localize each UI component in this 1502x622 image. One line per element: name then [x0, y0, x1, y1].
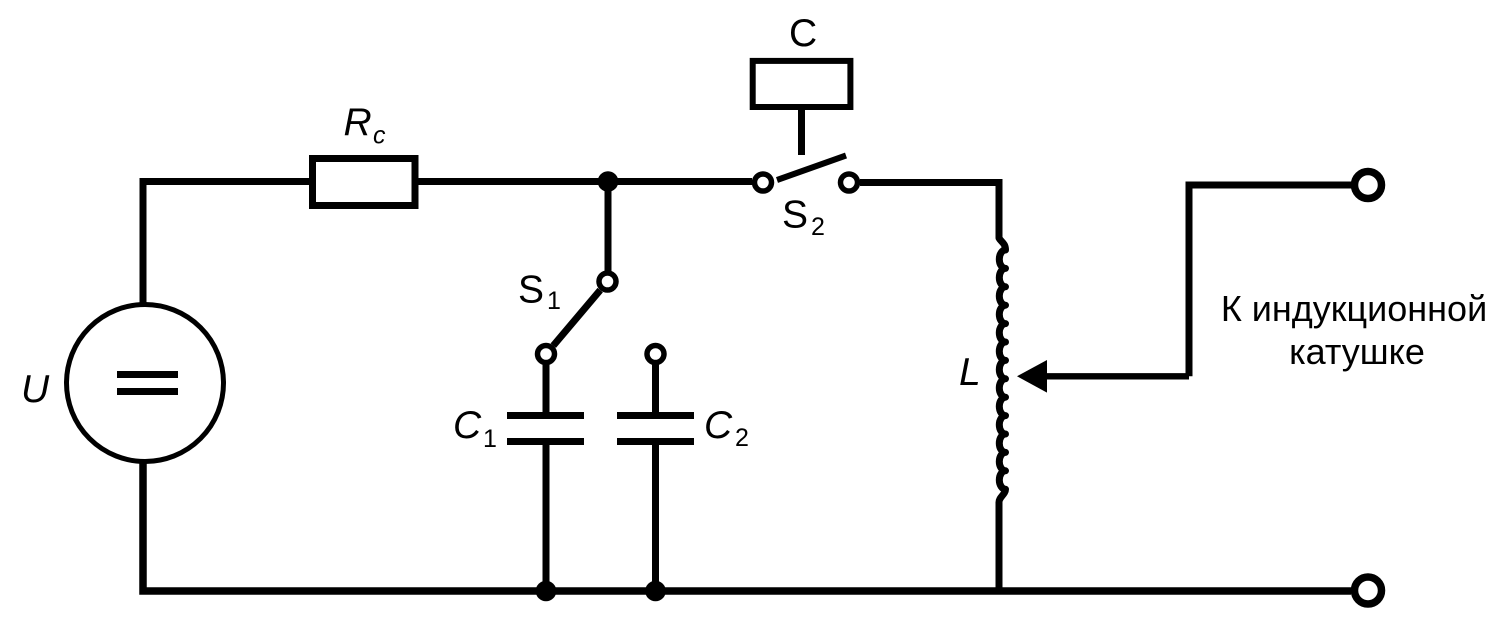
- svg-text:C: C: [704, 404, 733, 447]
- wire source bottom to bottom bus and bus to right terminal: [143, 462, 1351, 591]
- svg-text:1: 1: [483, 425, 497, 453]
- label: to induction coil (text): [1221, 288, 1487, 372]
- capacitor C2: [617, 416, 694, 442]
- terminal bottom right: [1355, 577, 1382, 604]
- wire left branch: top-left corner from source up to resistor: [143, 182, 310, 306]
- label S1: [518, 269, 561, 316]
- svg-text:2: 2: [811, 213, 825, 241]
- wire right: arrow corner up to top terminal: [1189, 185, 1352, 376]
- inductor L coil: [999, 179, 1006, 591]
- voltage source U: [67, 305, 224, 462]
- svg-text:R: R: [344, 101, 372, 144]
- label Rc: [344, 101, 387, 150]
- junction dot C1 on bus: [536, 581, 557, 602]
- contact box C: [753, 61, 851, 107]
- wire C1 bottom plate to bus: [543, 444, 550, 591]
- label C1: [453, 404, 497, 453]
- terminal circle of C2: [647, 346, 664, 363]
- svg-text:1: 1: [547, 287, 561, 315]
- capacitor C1: [507, 416, 584, 442]
- node junction on top wire: [598, 171, 619, 192]
- svg-text:c: c: [373, 122, 386, 150]
- switch S1: [538, 273, 617, 363]
- svg-text:C: C: [453, 404, 482, 447]
- wire S2 right circle to coil top corner: [860, 179, 1003, 186]
- label C2: [704, 404, 749, 452]
- svg-text:S: S: [518, 269, 544, 312]
- svg-text:L: L: [959, 351, 981, 394]
- wire S1 lower circle to capacitor C1: [543, 364, 550, 413]
- resistor Rc: [313, 159, 416, 206]
- wire S1 node down from junction: [605, 182, 612, 272]
- svg-text:U: U: [21, 368, 50, 411]
- wire C2 bottom plate to bus: [652, 444, 659, 591]
- arrow to coil tap: [1017, 360, 1189, 393]
- svg-text:катушке: катушке: [1289, 331, 1425, 372]
- svg-text:S: S: [782, 194, 808, 237]
- junction dot C2 on bus: [645, 581, 666, 602]
- svg-text:К индукционной: К индукционной: [1221, 288, 1487, 329]
- svg-text:C: C: [789, 12, 817, 55]
- wire C2 terminal circle to capacitor C2: [652, 364, 659, 413]
- wire contact box C down to switch S2 arm: [798, 110, 805, 155]
- label S2: [782, 194, 825, 242]
- wire resistor to S2: [419, 178, 753, 185]
- terminal top right: [1355, 172, 1382, 199]
- switch S2: [755, 156, 858, 192]
- svg-text:2: 2: [735, 424, 749, 452]
